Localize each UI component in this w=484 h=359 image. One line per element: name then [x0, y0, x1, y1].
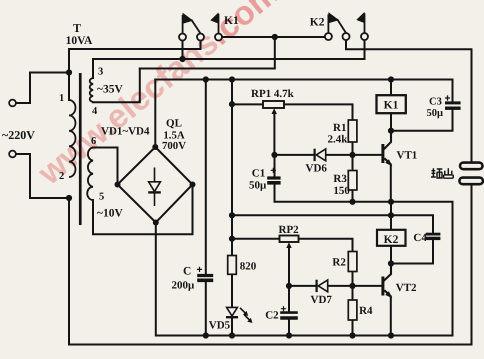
wire 820 to VD5 — [231, 274, 233, 307]
wire pin4 horizontal — [93, 69, 140, 103]
wire rail to K1 contact c2 — [69, 40, 201, 49]
node K2 top tap — [388, 212, 394, 218]
wire primary pin1 drop — [68, 49, 70, 100]
relay coil K1 — [377, 95, 406, 113]
bridge rectifier QL diamond — [118, 147, 193, 223]
svg-text:150: 150 — [333, 185, 350, 197]
node RP2 left tap — [229, 236, 235, 242]
node DC rail at K1 — [388, 76, 394, 82]
svg-text:VD1~VD4: VD1~VD4 — [101, 126, 150, 138]
wire R4 bottom lead — [352, 320, 354, 336]
wire VT2 collector — [384, 264, 391, 281]
node DC rail at C — [203, 76, 209, 82]
capacitor C2 — [280, 306, 298, 318]
diode VD6 — [315, 149, 326, 161]
label output 输出 glyphs — [431, 168, 453, 178]
relay contact K1 c1 — [179, 13, 201, 41]
svg-text:1: 1 — [59, 93, 64, 104]
wire C3 bottom to K1 node — [391, 109, 453, 130]
wire C2 top lead — [288, 286, 290, 312]
relay contact K1 c2 — [197, 34, 204, 41]
node RP1 left tap — [229, 101, 235, 107]
node K1 contact to 35V rail — [179, 56, 185, 62]
node RP2 wiper / C2 / VD7 — [286, 283, 292, 289]
svg-text:VD6: VD6 — [306, 163, 328, 175]
resistor R2 — [348, 252, 357, 272]
svg-text:RP2: RP2 — [279, 224, 300, 236]
wire VT2 emitter drop — [390, 297, 392, 336]
wire C1 bottom and emitter row — [275, 184, 453, 335]
wire VD6 row left — [275, 154, 315, 156]
node contact bus junction — [272, 34, 278, 40]
node mains bottom junction — [66, 195, 72, 201]
wire contact bus K1c3 to K2c1 — [222, 36, 325, 38]
svg-text:VD5: VD5 — [209, 320, 231, 332]
output terminal top bar — [460, 163, 483, 170]
wire RP1 wiper — [273, 113, 275, 155]
wire R1 bottom lead — [352, 142, 354, 155]
svg-text:~10V: ~10V — [97, 208, 123, 220]
svg-text:2.4k: 2.4k — [328, 134, 349, 146]
wire RP2 right lead to R2 — [299, 239, 353, 252]
svg-text:C1: C1 — [252, 168, 265, 180]
svg-text:VT2: VT2 — [396, 282, 417, 294]
wire divider column x232 — [231, 80, 233, 256]
svg-text:K1: K1 — [384, 100, 399, 112]
transformer secondary winding 35V — [90, 78, 93, 102]
node bridge left — [115, 182, 121, 188]
wire R4 top lead — [352, 286, 354, 300]
svg-text:6: 6 — [91, 136, 96, 147]
svg-text:R3: R3 — [333, 173, 347, 185]
svg-text:~220V: ~220V — [2, 128, 35, 142]
svg-text:K2: K2 — [310, 17, 325, 29]
wire C filter bottom lead — [205, 282, 207, 336]
svg-text:VD7: VD7 — [311, 294, 333, 306]
svg-text:50μ: 50μ — [427, 108, 444, 119]
relay contact K2 c2 — [343, 33, 350, 40]
node ground at VT2 emitter — [388, 332, 394, 338]
capacitor C filter 200u — [197, 267, 213, 281]
svg-text:10VA: 10VA — [66, 35, 93, 47]
transistor VT2 — [381, 277, 392, 299]
wire C2 bottom lead — [288, 320, 290, 336]
resistor R4 — [348, 300, 357, 320]
wire VD7 row left — [289, 285, 316, 287]
wire R3 bottom lead — [352, 190, 354, 202]
svg-text:50μ: 50μ — [249, 180, 267, 192]
relay contact K2 c1 — [325, 12, 346, 40]
node mains top junction — [66, 69, 72, 75]
node row215 left tap — [229, 212, 235, 218]
svg-text:C: C — [183, 266, 191, 278]
potentiometer RP1 — [263, 101, 284, 114]
wire VD7 row right to VT2 base — [328, 285, 382, 287]
svg-text:~35V: ~35V — [97, 84, 123, 96]
wire C3 branch top — [452, 80, 454, 102]
node R2 R4 VT2 base — [349, 283, 355, 289]
resistor R1 — [348, 120, 357, 142]
svg-text:2: 2 — [59, 171, 64, 182]
node ground at C2 — [286, 332, 292, 338]
node DC rail at divider column — [229, 76, 235, 82]
node bridge bottom — [153, 220, 159, 226]
wire outer bottom rail — [69, 344, 472, 346]
node VT1 emitter — [388, 199, 394, 205]
transformer T primary winding — [69, 100, 76, 177]
svg-text:K1: K1 — [224, 15, 239, 27]
node R1 R3 VD6 junction — [349, 152, 355, 158]
svg-text:QL: QL — [166, 118, 182, 130]
wire ~220V bottom lead — [16, 154, 68, 198]
wire K2 bottom lead — [390, 246, 392, 264]
svg-text:200μ: 200μ — [172, 280, 196, 292]
wire DC+ rail — [155, 79, 452, 81]
relay contact K1 c3 — [210, 12, 222, 40]
wire ground rail — [156, 335, 453, 337]
relay contact K2 c3 — [356, 12, 368, 40]
node ground at R4 — [349, 332, 355, 338]
resistor 820 — [228, 256, 237, 275]
wire K1 bottom lead — [390, 113, 392, 131]
node bridge top — [152, 144, 158, 150]
wire RP2 left lead — [232, 238, 280, 240]
capacitor C3 — [445, 95, 461, 108]
relay coil K2 — [377, 230, 406, 246]
svg-text:T: T — [73, 21, 81, 35]
transistor VT1 — [381, 144, 392, 166]
node K1 bottom / VT1 collector — [388, 128, 394, 134]
wire RP2 wiper — [288, 247, 290, 286]
svg-text:C3: C3 — [429, 96, 442, 107]
output terminal bottom bar — [459, 178, 483, 185]
wire R2 bottom lead — [352, 272, 354, 286]
watermark www.elecfans.com — [31, 0, 286, 193]
wire VT1e to K2 top — [390, 202, 392, 230]
wire K1 top lead — [390, 80, 392, 96]
svg-text:5: 5 — [99, 192, 104, 203]
svg-text:4: 4 — [92, 106, 98, 117]
wire rail pin4 — [140, 37, 275, 69]
node bridge right — [190, 182, 196, 188]
node R3 bottom — [349, 199, 355, 205]
wire C4 bottom — [391, 238, 433, 264]
wire RP1 left lead — [232, 103, 263, 105]
wire ~220V top lead — [16, 73, 68, 104]
wire VD5 to ground — [231, 319, 233, 336]
svg-text:820: 820 — [240, 261, 257, 273]
wire VT1 collector — [384, 131, 391, 149]
svg-text:R1: R1 — [333, 122, 346, 134]
transformer core — [79, 73, 82, 225]
wire K1 c1 stub to rail — [182, 40, 184, 59]
svg-text:VT1: VT1 — [397, 150, 418, 162]
svg-text:R4: R4 — [359, 305, 373, 317]
svg-text:RP1 4.7k: RP1 4.7k — [251, 88, 295, 100]
wire pin5 route to bridge right — [93, 185, 193, 235]
terminal ~220V bottom — [9, 151, 16, 158]
resistor R3 — [348, 171, 357, 191]
node RP1 wiper / C1 / VD6 — [271, 152, 277, 158]
LED VD5 — [226, 307, 253, 323]
svg-text:K2: K2 — [384, 234, 399, 246]
wire R3 top lead — [352, 155, 354, 171]
svg-text:700V: 700V — [162, 140, 186, 152]
wire VD6 row right to VT1 base — [326, 154, 382, 156]
node K2 bottom / C4 / VT2 collector — [388, 260, 394, 266]
bridge inner diode — [148, 168, 161, 207]
wire C filter top lead — [205, 80, 207, 275]
wire RP1 right lead to R1 — [284, 104, 353, 120]
wire rail 35V pin3 — [93, 40, 365, 78]
potentiometer RP2 — [280, 236, 299, 249]
transformer secondary winding 10V — [87, 148, 93, 201]
wire VT1 emitter drop — [390, 165, 392, 202]
terminal ~220V top — [9, 100, 16, 107]
svg-text:R2: R2 — [332, 257, 346, 269]
capacitor C4 — [426, 234, 441, 238]
node ground at C — [203, 332, 209, 338]
wire bridge bottom riser — [155, 223, 157, 336]
diode VD7 — [317, 280, 328, 292]
capacitor C1 — [267, 168, 280, 183]
wire output bottom right edge — [471, 184, 473, 344]
svg-text:C4: C4 — [413, 232, 427, 244]
wire bridge top riser — [154, 80, 156, 148]
svg-text:C2: C2 — [265, 310, 279, 322]
node ground at VD5 — [229, 332, 235, 338]
wire pin6 to bridge left — [93, 148, 118, 185]
wire row 215 to C4 — [232, 215, 433, 233]
wire mains return left vertical — [68, 198, 70, 345]
svg-text:3: 3 — [98, 67, 103, 78]
wire K2 contact c2 to output top — [346, 40, 472, 163]
wire C1 top lead — [274, 155, 276, 177]
